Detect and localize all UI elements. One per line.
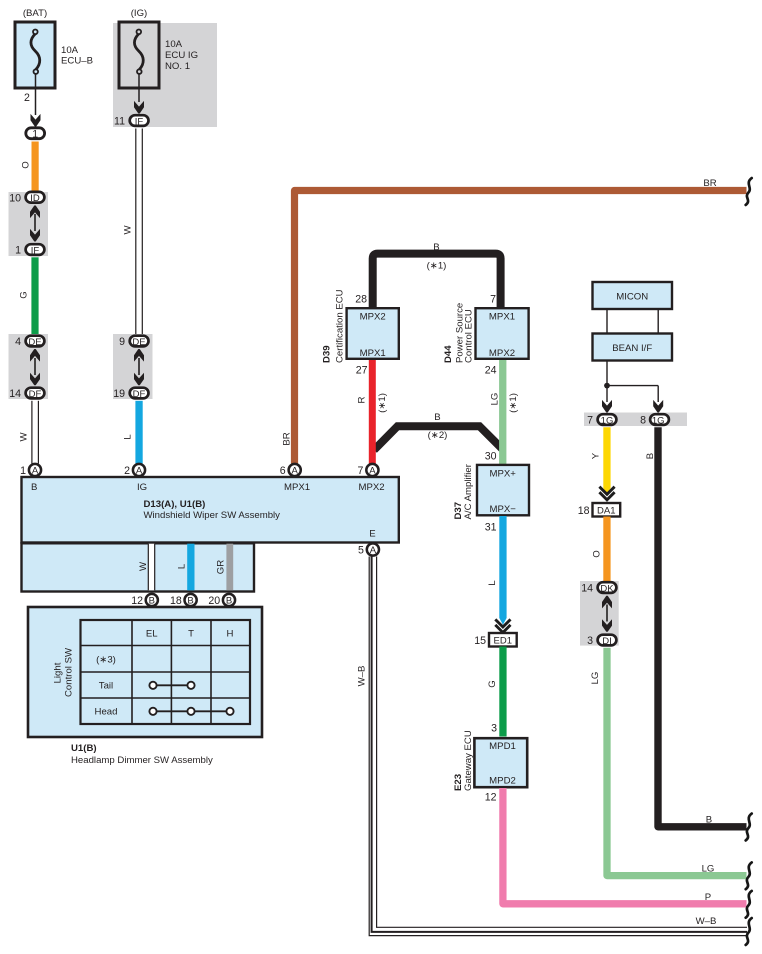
arrows between DE and DF (second) — [134, 349, 144, 385]
fuse ECU IG NO.1 gray background — [113, 23, 217, 127]
svg-text:O: O — [592, 550, 603, 557]
svg-text:12: 12 — [131, 595, 143, 607]
svg-text:ECU–B: ECU–B — [61, 56, 93, 67]
svg-text:A: A — [369, 466, 376, 477]
wire LG (light green) D44 to D37 — [490, 360, 520, 465]
svg-text:BR: BR — [282, 432, 293, 445]
svg-text:A: A — [136, 466, 143, 477]
connector 9 DE — [119, 336, 148, 348]
wire L (blue, second column) — [123, 401, 143, 464]
connector 15 ED1 — [474, 633, 516, 647]
svg-text:L: L — [123, 434, 134, 440]
svg-text:MPX1: MPX1 — [489, 312, 515, 323]
svg-text:3: 3 — [491, 723, 497, 735]
svg-text:BEAN I/F: BEAN I/F — [612, 343, 652, 354]
svg-text:L: L — [487, 580, 498, 586]
svg-text:1G: 1G — [601, 415, 614, 426]
svg-text:MPD1: MPD1 — [489, 741, 516, 752]
svg-text:(IG): (IG) — [131, 8, 148, 19]
svg-text:1: 1 — [20, 465, 26, 477]
wire G (green) — [19, 257, 39, 334]
svg-text:LG: LG — [590, 672, 601, 685]
svg-text:7: 7 — [357, 465, 363, 477]
svg-text:(∗2): (∗2) — [428, 430, 448, 441]
svg-text:P: P — [705, 892, 711, 903]
svg-text:B: B — [434, 412, 440, 423]
svg-text:W: W — [19, 432, 30, 442]
svg-text:NO. 1: NO. 1 — [165, 61, 190, 72]
svg-text:24: 24 — [485, 365, 497, 377]
connector circle 1 A — [20, 464, 41, 477]
continuation squiggle B — [746, 814, 752, 841]
lines MICON to BEAN — [607, 309, 658, 334]
svg-text:20: 20 — [208, 595, 220, 607]
connector circle 5 A — [358, 543, 379, 556]
ECU D39 Certification ECU — [322, 289, 399, 376]
svg-text:18: 18 — [578, 505, 590, 517]
svg-text:MPX2: MPX2 — [360, 312, 386, 323]
svg-text:10A: 10A — [61, 45, 79, 56]
connector 14 DK — [581, 582, 616, 594]
internal wire GR (gray) — [216, 544, 234, 591]
svg-text:MICON: MICON — [616, 292, 648, 303]
wire P (pink) E23 to edge — [503, 788, 747, 904]
connector 1 IF — [15, 244, 44, 256]
svg-text:B: B — [149, 596, 155, 607]
svg-text:B: B — [706, 815, 712, 826]
svg-text:B: B — [31, 482, 37, 493]
junction block DK/DI gray — [580, 581, 619, 646]
svg-text:W–B: W–B — [357, 666, 368, 687]
BEAN I/F box — [593, 334, 673, 361]
arrows between ID and IF — [30, 206, 40, 242]
svg-text:E: E — [369, 529, 375, 540]
svg-text:LG: LG — [702, 864, 715, 875]
svg-text:15: 15 — [474, 635, 486, 647]
junction block ID/IF gray — [9, 192, 49, 256]
gray strip 1G — [584, 413, 687, 427]
svg-text:L: L — [177, 563, 188, 569]
svg-text:LG: LG — [490, 393, 501, 406]
svg-text:GR: GR — [216, 560, 227, 574]
svg-text:7: 7 — [490, 294, 496, 306]
svg-text:IF: IF — [31, 245, 40, 256]
wire B (*2) branch — [374, 412, 502, 450]
svg-text:(∗1): (∗1) — [508, 393, 519, 413]
svg-text:2: 2 — [24, 92, 30, 104]
svg-text:Y: Y — [591, 452, 602, 459]
connector 8 1G — [640, 414, 669, 426]
svg-text:B: B — [433, 242, 439, 253]
svg-text:IF: IF — [135, 116, 144, 127]
wire G (green) ED1 to E23 — [487, 647, 507, 737]
junction block DE/DF gray (left) — [9, 334, 49, 399]
svg-text:5: 5 — [358, 545, 364, 557]
svg-text:MPX2: MPX2 — [359, 482, 385, 493]
svg-text:19: 19 — [113, 388, 125, 400]
continuation squiggle LG — [746, 862, 752, 889]
wire L (blue) D37 to ED1 — [487, 516, 507, 625]
svg-text:(∗1): (∗1) — [427, 261, 447, 272]
svg-text:18: 18 — [170, 595, 182, 607]
svg-text:(BAT): (BAT) — [23, 8, 47, 19]
svg-text:Light: Light — [53, 662, 64, 683]
svg-text:14: 14 — [581, 583, 593, 595]
svg-text:O: O — [21, 161, 32, 168]
wire O (orange, right) — [592, 517, 611, 582]
line BEAN to connectors with junction — [602, 361, 663, 413]
wire Y (yellow) — [591, 427, 611, 494]
svg-text:DK: DK — [600, 583, 614, 594]
svg-text:D13(A), U1(B): D13(A), U1(B) — [144, 499, 206, 510]
continuation squiggle BR — [746, 178, 752, 205]
wiper assembly sub-box — [22, 543, 255, 591]
svg-text:3: 3 — [587, 635, 593, 647]
wire W (white, left) — [19, 401, 39, 464]
svg-text:A: A — [370, 545, 377, 556]
svg-text:ED1: ED1 — [494, 636, 512, 647]
light control SW table — [81, 620, 251, 724]
svg-text:R: R — [357, 396, 368, 403]
MICON box — [593, 282, 673, 309]
svg-text:B: B — [187, 596, 193, 607]
svg-text:MPX2: MPX2 — [489, 348, 515, 359]
svg-text:B: B — [226, 596, 232, 607]
junction block DE/DF gray (second) — [113, 334, 153, 399]
svg-text:10A: 10A — [165, 39, 183, 50]
svg-text:7: 7 — [587, 415, 593, 427]
svg-text:MPX1: MPX1 — [284, 482, 310, 493]
connector circle 6 A — [280, 464, 301, 477]
svg-text:Tail: Tail — [99, 681, 113, 692]
connector circle 2 A — [124, 464, 145, 477]
svg-text:MPX−: MPX− — [489, 504, 516, 515]
ECU D37 A/C Amplifier — [453, 451, 529, 534]
Headlamp Dimmer SW Assembly box — [28, 607, 262, 737]
svg-text:DF: DF — [29, 389, 42, 400]
svg-text:4: 4 — [15, 336, 21, 348]
svg-text:MPX+: MPX+ — [489, 469, 516, 480]
wire B (black, right) to edge — [645, 427, 747, 827]
wire BR (brown) — [282, 178, 747, 464]
svg-text:ID: ID — [30, 193, 40, 204]
wire LG (light green, right) to edge — [590, 648, 747, 876]
svg-text:W: W — [123, 225, 134, 235]
svg-text:Head: Head — [95, 707, 118, 718]
connector 4 DE — [15, 336, 44, 348]
svg-text:G: G — [487, 680, 498, 687]
svg-text:30: 30 — [485, 451, 497, 463]
connector circle 20 B — [208, 594, 235, 607]
svg-text:MPX1: MPX1 — [360, 348, 386, 359]
svg-text:12: 12 — [485, 792, 497, 804]
svg-text:(∗1): (∗1) — [377, 393, 388, 413]
connector oval 1 — [26, 128, 45, 141]
wire B (*1) between D39 and D44 — [373, 242, 501, 309]
svg-text:2: 2 — [124, 465, 130, 477]
wire W (white, second column) — [123, 129, 143, 335]
svg-text:IG: IG — [137, 482, 147, 493]
internal wire W (white) — [138, 544, 155, 591]
svg-text:11: 11 — [114, 116, 125, 128]
connector 3 DI — [587, 635, 616, 647]
svg-text:DE: DE — [28, 337, 41, 348]
Windshield Wiper SW Assembly box — [22, 477, 399, 543]
svg-text:Control SW: Control SW — [64, 647, 75, 697]
svg-text:Control ECU: Control ECU — [464, 309, 475, 363]
shield chevron at ED1 — [495, 619, 510, 632]
svg-text:G: G — [19, 291, 30, 298]
svg-text:1G: 1G — [652, 415, 665, 426]
svg-text:EL: EL — [146, 629, 158, 640]
arrows between DK and DI — [602, 596, 612, 632]
svg-text:Headlamp Dimmer SW Assembly: Headlamp Dimmer SW Assembly — [71, 755, 213, 766]
svg-text:A: A — [32, 466, 39, 477]
svg-text:ECU IG: ECU IG — [165, 50, 198, 61]
fuse ECU IG NO.1 — [119, 8, 198, 88]
svg-text:Certification ECU: Certification ECU — [335, 289, 346, 363]
svg-text:9: 9 — [119, 336, 125, 348]
svg-text:BR: BR — [703, 178, 716, 189]
arrows between DE and DF — [30, 349, 40, 385]
svg-text:Gateway ECU: Gateway ECU — [463, 730, 474, 791]
svg-text:T: T — [188, 629, 194, 640]
continuation squiggle W-B — [746, 918, 752, 945]
connector 7 1G — [587, 414, 616, 426]
connector circle 12 B — [131, 594, 158, 607]
svg-text:W–B: W–B — [696, 916, 717, 927]
svg-text:DI: DI — [602, 636, 612, 647]
svg-text:1: 1 — [32, 128, 38, 140]
svg-text:1: 1 — [15, 245, 21, 257]
svg-text:31: 31 — [485, 522, 497, 534]
svg-text:Windshield Wiper SW Assembly: Windshield Wiper SW Assembly — [144, 510, 281, 521]
head row contacts — [149, 708, 233, 715]
U1(B) caption — [71, 743, 213, 766]
connector circle 18 B — [170, 594, 197, 607]
wire W-B from 5A to edge — [357, 557, 748, 936]
svg-text:DF: DF — [133, 389, 146, 400]
stubs B circles to table — [152, 607, 229, 622]
svg-text:A: A — [292, 466, 299, 477]
svg-text:A/C Amplifier: A/C Amplifier — [463, 463, 474, 519]
internal wire L (blue) — [177, 544, 195, 591]
svg-text:DE: DE — [132, 337, 145, 348]
svg-text:MPD2: MPD2 — [489, 776, 516, 787]
connector 18 DA1 — [578, 503, 620, 517]
connector 19 DF — [113, 388, 148, 400]
connector circle 7 A — [357, 464, 378, 477]
fuse ECU-B (BAT) — [15, 8, 93, 88]
svg-text:14: 14 — [9, 388, 21, 400]
svg-text:U1(B): U1(B) — [71, 743, 97, 754]
connector 10 ID — [9, 192, 44, 205]
shield chevron at DA1 — [599, 487, 614, 500]
svg-text:D39: D39 — [322, 345, 333, 363]
svg-text:DA1: DA1 — [597, 506, 615, 517]
svg-text:8: 8 — [640, 415, 646, 427]
wire fuse1 to connector 1 — [24, 73, 40, 127]
connector 14 DF — [9, 388, 44, 400]
svg-text:6: 6 — [280, 465, 286, 477]
wire R (red) D39 to MPX2 — [357, 360, 389, 464]
svg-text:D44: D44 — [443, 345, 454, 363]
svg-text:10: 10 — [9, 193, 21, 205]
connector 11 IF — [114, 115, 149, 127]
tail row contacts — [149, 682, 194, 689]
svg-text:27: 27 — [356, 365, 368, 377]
svg-text:B: B — [645, 453, 656, 459]
ECU D44 Power Source Control ECU — [443, 294, 529, 377]
wire O (orange) — [21, 142, 39, 193]
svg-text:28: 28 — [355, 294, 367, 306]
ECU E23 Gateway ECU — [453, 723, 527, 804]
svg-text:H: H — [227, 629, 234, 640]
svg-text:W: W — [138, 561, 149, 571]
continuation squiggle P — [746, 891, 752, 918]
svg-text:(∗3): (∗3) — [96, 655, 116, 666]
wire fuse2 to connector 11 IF — [134, 73, 144, 114]
